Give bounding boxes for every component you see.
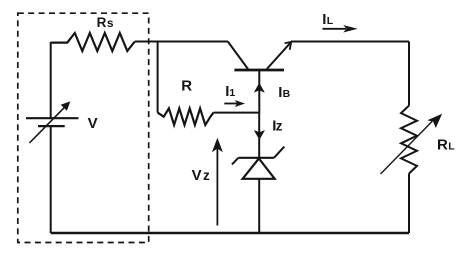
label I1 — [225, 83, 235, 100]
resistor R — [158, 108, 214, 125]
svg-text:R: R — [97, 15, 107, 30]
label IZ — [272, 118, 283, 135]
transistor Q1 emitter lead with arrow — [267, 42, 291, 69]
resistor RS — [51, 33, 135, 51]
label V — [88, 115, 98, 132]
zener diode DZ — [232, 147, 284, 179]
svg-text:L: L — [448, 141, 455, 153]
wire: right vertical (RL down to bottom rail) — [408, 174, 410, 234]
svg-text:B: B — [283, 88, 291, 100]
svg-text:L: L — [327, 15, 334, 27]
current arrow IL (right, above top rail) — [323, 25, 358, 32]
wire: left vertical (Rs lead corner down to battery top plate) — [50, 42, 52, 118]
current arrow I1 (right, above R output wire) — [224, 100, 245, 107]
wire: drop from top rail node to resistor R — [157, 42, 159, 113]
wire: emitter top rail to right side — [291, 41, 409, 43]
wire: bottom rail — [51, 232, 409, 234]
wire: zener anode down to bottom rail — [258, 179, 260, 233]
label IB — [278, 84, 290, 101]
svg-text:z: z — [276, 119, 283, 134]
svg-text:R: R — [181, 78, 192, 95]
svg-text:R: R — [437, 136, 448, 153]
svg-text:V: V — [88, 115, 98, 132]
current arrow IB (up along base line) — [254, 83, 265, 93]
source enclosure dashed box — [18, 13, 149, 242]
label RL — [437, 136, 455, 153]
svg-text:z: z — [203, 168, 210, 183]
current arrow IZ (down along zener line) — [254, 130, 265, 140]
label R — [181, 78, 192, 95]
wire: left vertical (battery bottom plate down to bottom rail) — [50, 126, 52, 233]
label VZ — [192, 167, 210, 184]
wire: top rail from RS to collector — [135, 41, 228, 43]
wire: right vertical (top rail down to RL) — [408, 42, 410, 106]
label RS — [97, 15, 114, 30]
wire: R output to base node — [214, 112, 260, 114]
svg-text:V: V — [192, 167, 202, 184]
voltage arrow VZ (up) — [212, 138, 223, 226]
wire: node down to zener cathode — [258, 113, 260, 158]
resistor RL (variable) — [381, 106, 443, 174]
label IL — [322, 11, 334, 28]
transistor Q1 collector lead — [228, 42, 248, 70]
svg-text:s: s — [107, 16, 114, 30]
svg-text:1: 1 — [229, 87, 235, 99]
source V (variable battery symbol) — [26, 101, 79, 143]
transistor Q1 base bar — [234, 69, 284, 72]
wire: transistor base vertical down to node — [258, 70, 260, 113]
